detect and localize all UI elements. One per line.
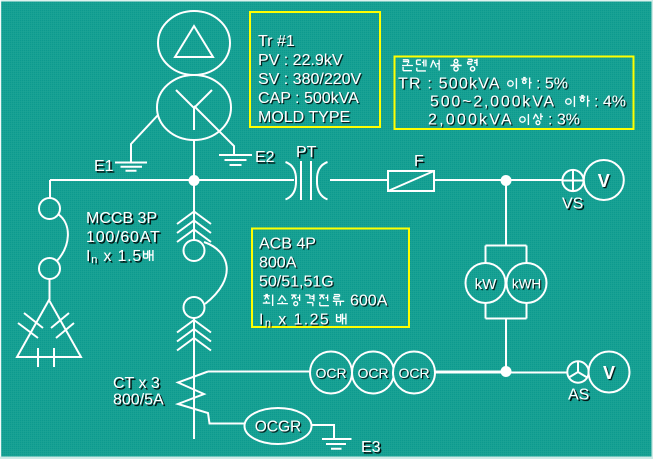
svg-text:PT: PT [296, 144, 317, 161]
svg-text:50/51,51G: 50/51,51G [259, 274, 334, 291]
svg-text:800/5A: 800/5A [113, 392, 164, 409]
svg-text:CAP : 500kVA: CAP : 500kVA [258, 90, 359, 107]
svg-text:F: F [414, 153, 424, 170]
svg-text:E1: E1 [94, 158, 114, 175]
svg-text:MOLD TYPE: MOLD TYPE [258, 109, 350, 126]
svg-text:: 5%: : 5% [536, 76, 568, 93]
svg-text:OCR: OCR [357, 365, 388, 381]
svg-text:SV : 380/220V: SV : 380/220V [258, 71, 362, 88]
svg-text:E3: E3 [361, 439, 381, 456]
svg-text:CT x 3: CT x 3 [113, 375, 160, 392]
svg-text:kW: kW [475, 276, 498, 293]
svg-text:: 3%: : 3% [548, 112, 580, 129]
svg-text:V: V [603, 363, 615, 383]
svg-text:ACB 4P: ACB 4P [259, 236, 316, 253]
svg-text:600A: 600A [350, 293, 388, 310]
svg-text:500~2,000kVA: 500~2,000kVA [430, 94, 556, 111]
svg-text:MCCB 3P: MCCB 3P [86, 210, 157, 227]
svg-text:kWH: kWH [512, 277, 541, 292]
svg-text:PV : 22.9kV: PV : 22.9kV [258, 52, 343, 69]
svg-text:V: V [598, 171, 610, 191]
svg-text:: 4%: : 4% [594, 94, 626, 111]
svg-text:Tr #1: Tr #1 [258, 33, 295, 50]
svg-text:800A: 800A [259, 255, 297, 272]
svg-text:AS: AS [568, 387, 589, 404]
svg-text:OCGR: OCGR [255, 419, 302, 436]
svg-text:2,000kVA: 2,000kVA [428, 112, 514, 129]
svg-text:E2: E2 [255, 149, 275, 166]
svg-text:OCR: OCR [315, 365, 346, 381]
svg-text:VS: VS [562, 196, 583, 213]
svg-text:OCR: OCR [398, 365, 429, 381]
svg-text:100/60AT: 100/60AT [86, 229, 161, 246]
svg-text:TR : 500kVA: TR : 500kVA [398, 76, 501, 93]
